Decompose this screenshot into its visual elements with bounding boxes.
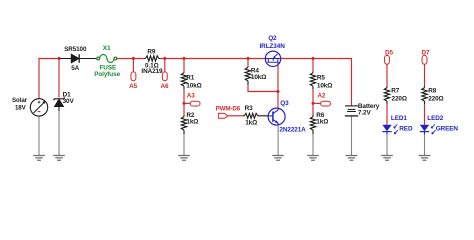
- battery 7.2V: [345, 106, 358, 116]
- wire: R7 to LED1: [386, 104, 388, 125]
- svg-text:A3: A3: [187, 92, 196, 99]
- wire: Q2 gate riser: [277, 65, 279, 92]
- wire: A5 probe stub: [132, 59, 134, 73]
- wire: tag to R3: [228, 115, 243, 117]
- node R1 branch junction: [183, 57, 186, 60]
- node R4 branch junction: [247, 57, 250, 60]
- resistor R2 1k: [183, 115, 185, 134]
- resistor R5 10k: [312, 71, 314, 89]
- connector PWM-D6 input tag: [218, 113, 228, 118]
- ground (battery): [346, 156, 358, 161]
- node A2 junction: [312, 102, 315, 105]
- wire: A2 junction down to R6: [312, 103, 314, 115]
- svg-text:2N2221A: 2N2221A: [279, 126, 306, 133]
- wire: A3 junction down to R2: [183, 103, 185, 115]
- node junction D1 branch: [58, 57, 61, 60]
- ground (R6): [307, 156, 319, 161]
- wire: battery to ground: [351, 117, 353, 156]
- svg-text:18V: 18V: [15, 105, 27, 112]
- connector probe A6: [162, 72, 167, 81]
- svg-text:Q3: Q3: [280, 100, 289, 107]
- svg-text:A6: A6: [161, 83, 170, 90]
- svg-text:7.2V: 7.2V: [358, 109, 372, 116]
- svg-text:10kΩ: 10kΩ: [186, 82, 201, 89]
- resistor R6 1k: [312, 115, 314, 134]
- ground (LED2): [419, 156, 431, 161]
- wire: R1 to A3 junction: [183, 90, 185, 104]
- svg-text:10kΩ: 10kΩ: [317, 82, 332, 89]
- connector probe A5: [131, 72, 136, 81]
- svg-text:Q2: Q2: [268, 35, 277, 42]
- svg-text:5A: 5A: [71, 65, 79, 72]
- svg-text:LED1: LED1: [391, 115, 407, 122]
- svg-text:RED: RED: [399, 125, 413, 132]
- ground (LED1): [381, 156, 393, 161]
- wire: D1 to ground: [58, 111, 60, 156]
- svg-text:1kΩ: 1kΩ: [316, 119, 328, 126]
- node A3 junction: [183, 102, 186, 105]
- LED1 RED: [382, 124, 398, 134]
- svg-text:INA219: INA219: [141, 68, 163, 75]
- node gate/R4/collector junction: [277, 90, 280, 93]
- svg-text:220Ω: 220Ω: [392, 96, 407, 103]
- svg-text:R8: R8: [428, 88, 437, 95]
- wire: junction down to Q3 collector: [277, 92, 279, 109]
- ground (Q3 emitter): [272, 156, 284, 161]
- svg-text:220Ω: 220Ω: [428, 96, 443, 103]
- ground (solar source): [38, 116, 40, 156]
- svg-text:10kΩ: 10kΩ: [251, 74, 266, 81]
- wire: A2 probe stub: [313, 102, 321, 104]
- diode SR5100 (5A): [60, 54, 97, 63]
- ground (R2): [178, 156, 190, 161]
- wire: D7 probe to R8: [424, 64, 426, 86]
- resistor R1 10k: [183, 71, 185, 89]
- svg-text:PWM-D6: PWM-D6: [216, 105, 241, 112]
- svg-text:1kΩ: 1kΩ: [245, 119, 257, 126]
- mosfet Q2 IRLZ34N: [265, 51, 280, 66]
- wire: fuse to A5 junction: [117, 58, 144, 60]
- wire: R2 to ground: [183, 134, 185, 155]
- wire: LED1 to ground: [386, 135, 388, 156]
- fuse X1 FUSE Polyfuse: [97, 54, 117, 62]
- resistor R4 10k: [247, 66, 249, 85]
- wire: R4 bottom to gate/collector junction: [248, 85, 278, 92]
- wire: A3 probe stub: [184, 102, 190, 104]
- svg-text:Solar: Solar: [12, 97, 28, 104]
- svg-text:GREEN: GREEN: [436, 125, 459, 132]
- resistor R3 1k: [243, 115, 268, 117]
- source Solar 18V: [30, 99, 47, 116]
- svg-text:SR5100: SR5100: [64, 46, 87, 53]
- node R5 branch junction: [312, 57, 315, 60]
- svg-text:R5: R5: [317, 75, 326, 82]
- wire: R5 to A2 junction: [312, 90, 314, 104]
- svg-text:30V: 30V: [63, 98, 75, 105]
- connector probe A2: [321, 101, 331, 106]
- ground (D1): [53, 156, 65, 161]
- svg-text:R3: R3: [245, 105, 254, 112]
- svg-text:A5: A5: [129, 83, 138, 90]
- svg-text:LED2: LED2: [427, 115, 443, 122]
- wire: solar riser + left top rail segment: [39, 59, 60, 99]
- wire: R8 to LED2: [424, 104, 426, 125]
- svg-text:R9: R9: [147, 49, 156, 56]
- svg-text:1kΩ: 1kΩ: [186, 119, 198, 126]
- connector probe A3: [190, 101, 200, 106]
- wire: LED2 to ground: [424, 135, 426, 156]
- wire: rail right of Q2 to battery corner: [281, 59, 352, 106]
- zener diode D1 30V: [53, 98, 64, 112]
- resistor R9 0.1ohm INA219 shunt: [144, 58, 160, 60]
- svg-text:R1: R1: [186, 75, 195, 82]
- svg-text:A2: A2: [317, 93, 326, 100]
- wire: D1 branch riser (red): [58, 59, 60, 98]
- resistor R8 220: [424, 86, 426, 104]
- node A5 junction: [132, 57, 135, 60]
- svg-text:X1: X1: [103, 45, 111, 52]
- node A6 junction: [163, 57, 166, 60]
- wire: D5 probe to R7: [386, 64, 388, 86]
- wire: rail junction down to R4: [247, 59, 249, 66]
- wire: Q3 emitter to ground: [277, 125, 279, 156]
- wire: rail junction down to R1: [183, 59, 185, 72]
- resistor R7 220: [386, 86, 388, 104]
- wire: rail junction down to R5: [312, 59, 314, 72]
- wire: A6 probe stub: [164, 59, 166, 73]
- wire: R6 to ground: [312, 134, 314, 155]
- wire: R9 to A6 junction to R1 junction: [160, 58, 265, 60]
- svg-text:IRLZ34N: IRLZ34N: [260, 43, 286, 50]
- svg-text:Polyfuse: Polyfuse: [94, 71, 120, 78]
- svg-text:R7: R7: [391, 88, 400, 95]
- transistor Q3 2N2221A: [268, 108, 285, 125]
- LED2 GREEN: [420, 124, 436, 134]
